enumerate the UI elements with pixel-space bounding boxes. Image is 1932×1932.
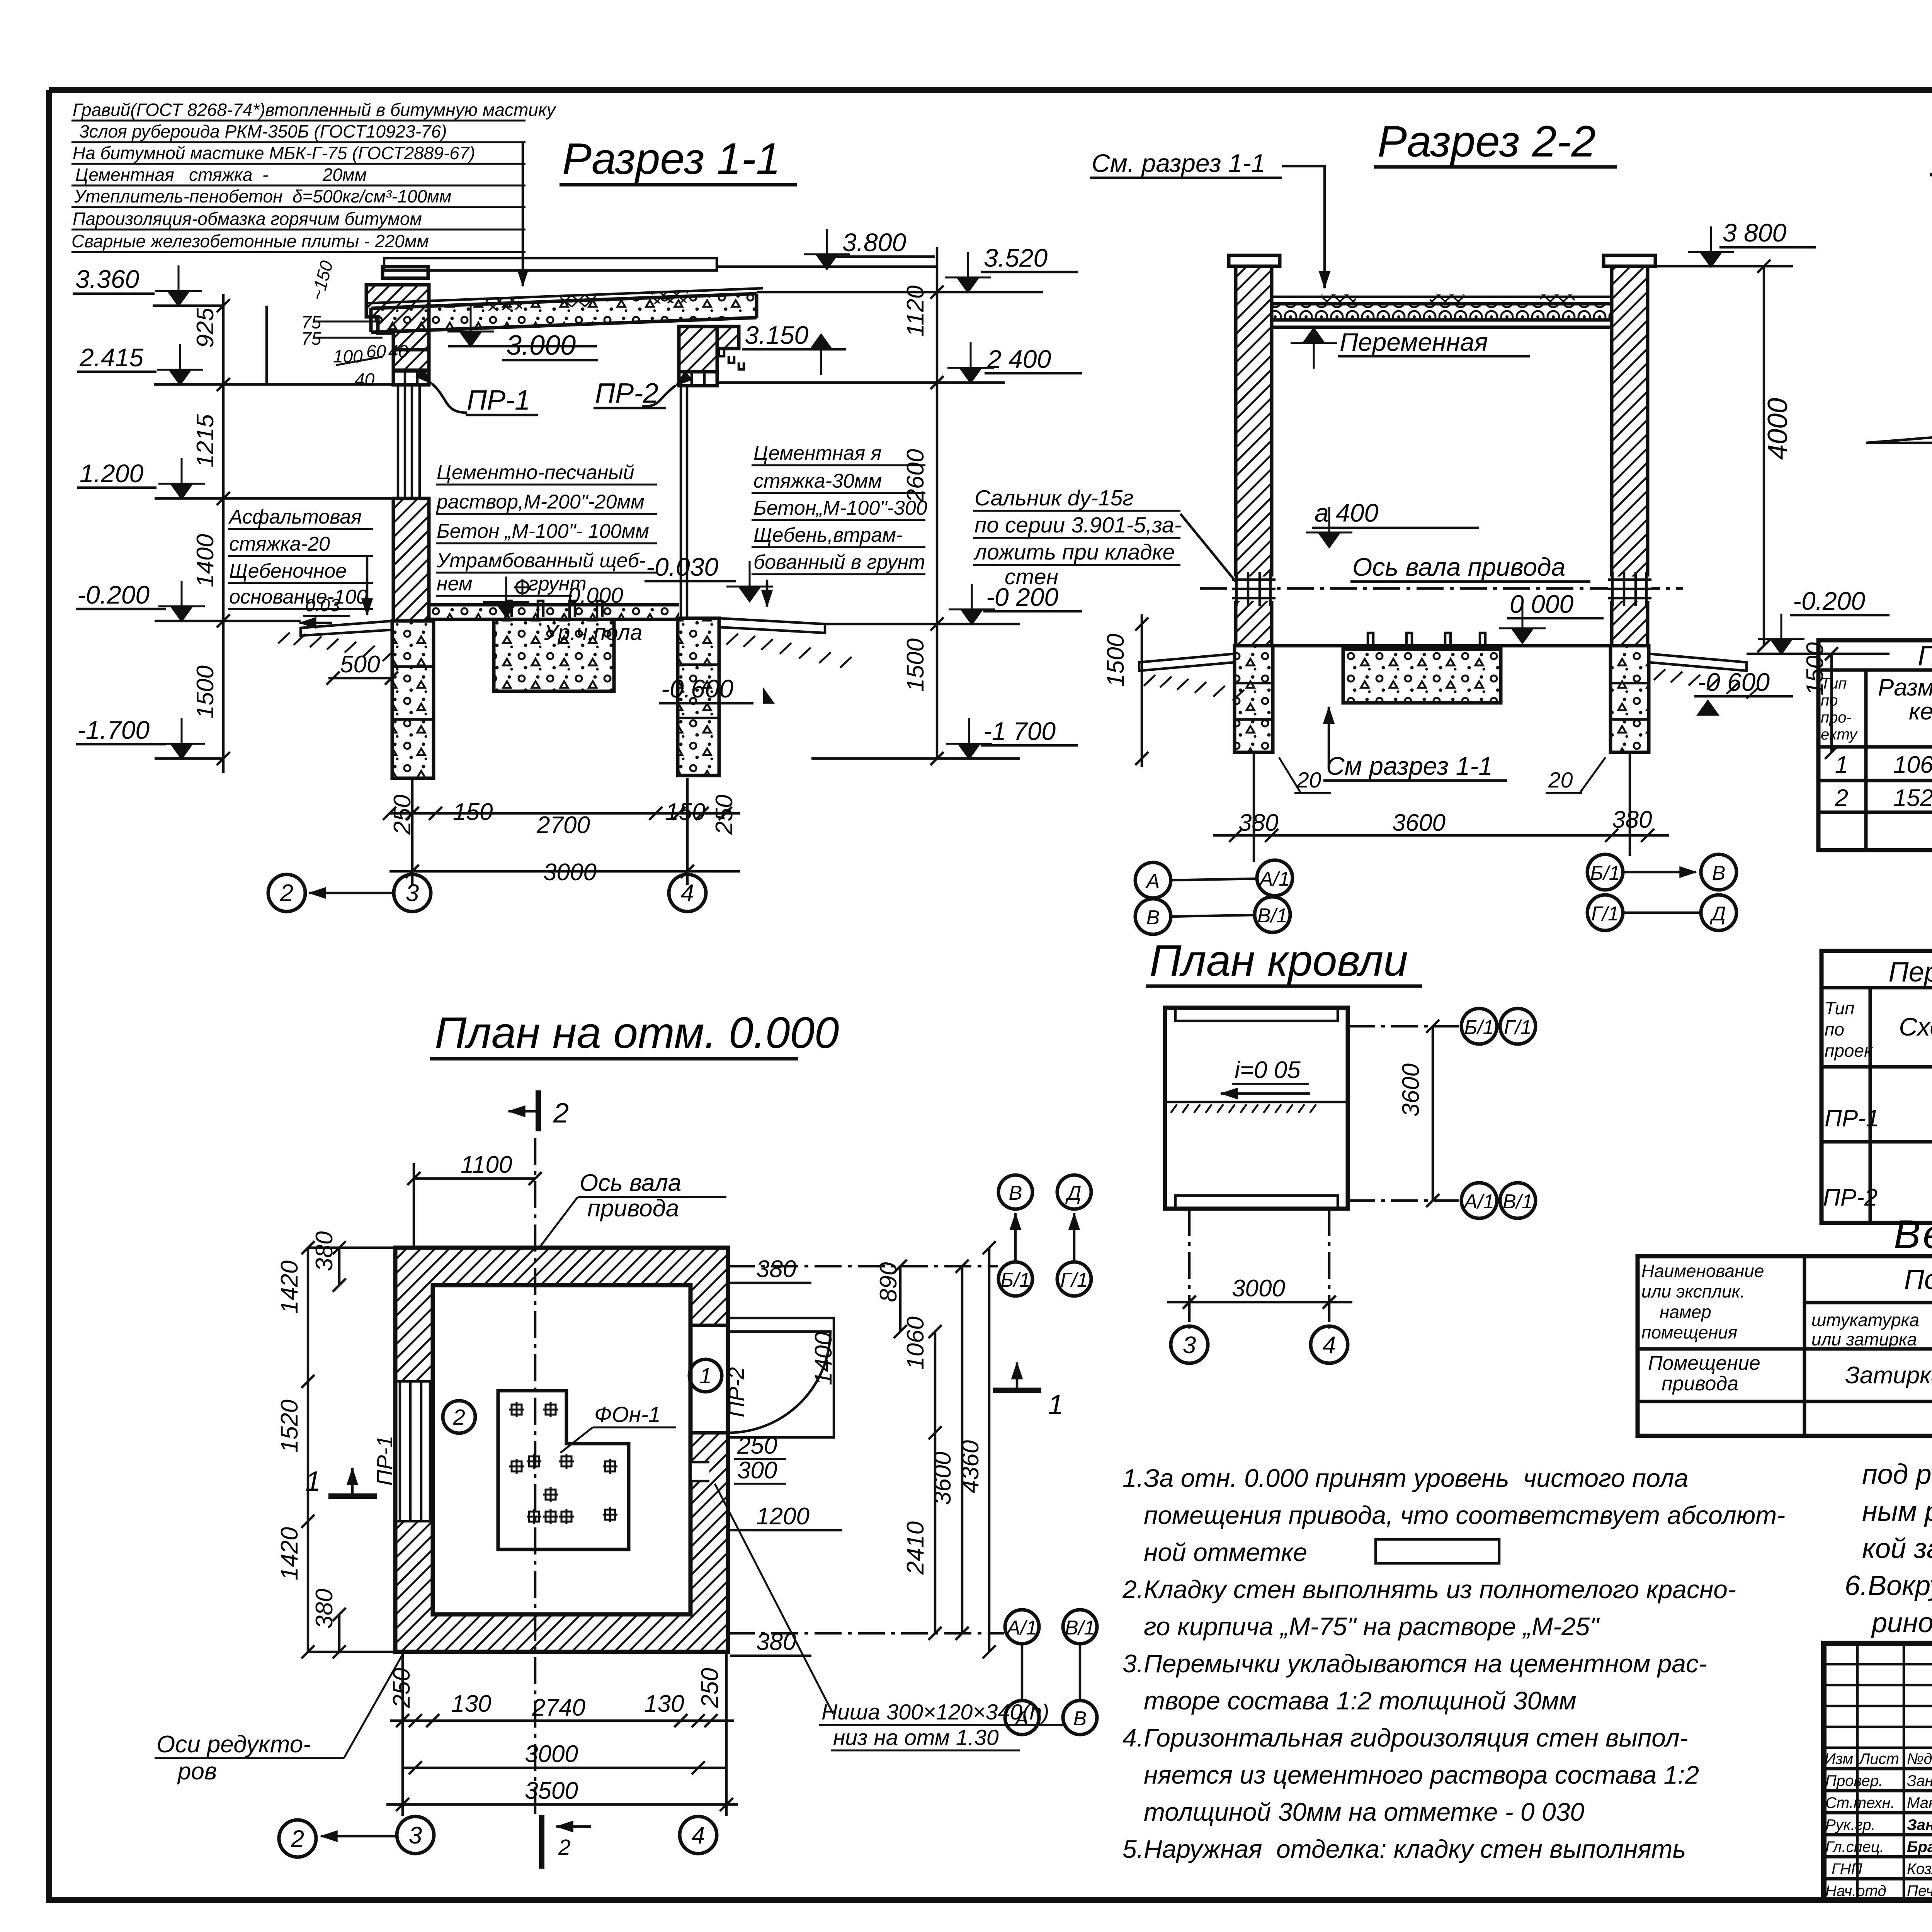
svg-text:Б/1: Б/1: [1464, 1016, 1494, 1039]
svg-text:3.Перемычки укладываются на це: 3.Перемычки укладываются на цементном ра…: [1122, 1649, 1707, 1678]
svg-text:-0.200: -0.200: [77, 580, 150, 609]
interior level 3.000: [447, 306, 598, 361]
svg-text:В: В: [1146, 906, 1160, 929]
porch outline: [728, 1318, 834, 1437]
svg-text:ПР-1: ПР-1: [467, 385, 530, 416]
svg-text:380: 380: [756, 1256, 796, 1282]
svg-text:250: 250: [737, 1432, 777, 1459]
svg-text:Оси редукто-: Оси редукто-: [156, 1731, 311, 1758]
lintel PR-1: [393, 370, 429, 385]
svg-text:Козловская: Козловская: [1907, 1861, 1932, 1878]
svg-text:3 800: 3 800: [1723, 218, 1786, 247]
svg-text:6.Вокруг здания устраивается а: 6.Вокруг здания устраивается асфальтовая…: [1845, 1570, 1932, 1601]
openings white: [393, 1381, 435, 1521]
svg-text:2700: 2700: [536, 812, 590, 838]
svg-text:1120: 1120: [902, 286, 929, 337]
svg-text:Проемы: Проемы: [1918, 641, 1932, 672]
svg-text:ПР-2: ПР-2: [1823, 1184, 1878, 1211]
svg-text:1: 1: [1048, 1389, 1063, 1420]
bottom axes: [1188, 1209, 1191, 1329]
svg-text:Переменная: Переменная: [1340, 328, 1488, 356]
svg-text:См. разрез 1-1: См. разрез 1-1: [1092, 149, 1265, 177]
svg-text:2: 2: [291, 1826, 304, 1852]
svg-text:Д: Д: [1710, 903, 1726, 925]
svg-text:штукатурка: штукатурка: [1811, 1310, 1919, 1330]
svg-text:5.Наружная отделка: кладку ст: 5.Наружная отделка: кладку стен выполнят…: [1122, 1835, 1686, 1863]
svg-text:130: 130: [644, 1690, 684, 1717]
svg-text:В/1: В/1: [1503, 1190, 1533, 1213]
svg-text:0.03: 0.03: [305, 595, 340, 615]
svg-text:3слоя рубероида РКМ-350Б (ГОСТ: 3слоя рубероида РКМ-350Б (ГОСТ10923-76): [79, 121, 447, 141]
svg-text:1: 1: [699, 1364, 712, 1388]
svg-text:Потолок: Потолок: [1904, 1264, 1932, 1295]
Peremennaya label: [1291, 327, 1337, 369]
svg-text:Г/1: Г/1: [1504, 1016, 1532, 1039]
svg-text:ров: ров: [177, 1758, 217, 1785]
svg-text:-0.600: -0.600: [661, 674, 733, 703]
svg-text:ным раствором. Окна и двери ок: ным раствором. Окна и двери окрасить мас…: [1862, 1496, 1932, 1527]
svg-text:А/1: А/1: [1463, 1190, 1494, 1213]
svg-text:4: 4: [1323, 1332, 1336, 1359]
svg-text:помещения привода, что соответ: помещения привода, что соответствует абс…: [1144, 1501, 1785, 1529]
leader from spec to cornice: [522, 143, 524, 286]
svg-text:2600: 2600: [902, 449, 929, 503]
left wall upper masonry: [393, 350, 429, 371]
svg-text:Рук.гр.: Рук.гр.: [1825, 1816, 1876, 1833]
svg-text:основание-100: основание-100: [229, 586, 367, 608]
svg-text:Цементная я: Цементная я: [753, 442, 881, 464]
svg-text:130: 130: [451, 1690, 491, 1717]
svg-text:i=0 05: i=0 05: [1235, 1057, 1301, 1083]
svg-text:См разрез 1-1: См разрез 1-1: [1326, 752, 1493, 780]
section mark 2 bottom: [539, 1815, 544, 1869]
svg-text:3.150: 3.150: [745, 321, 808, 349]
svg-text:Цементная стяжка -: Цементная стяжка - 20мм: [75, 165, 367, 185]
bottom dim chain 2-2: [1213, 834, 1669, 837]
svg-text:Утрамбованный щеб-: Утрамбованный щеб-: [436, 549, 646, 572]
svg-text:20: 20: [1296, 768, 1321, 793]
right levels of section 1-1: [717, 228, 1148, 767]
1500 right dim: [1830, 654, 1833, 752]
svg-text:3600: 3600: [1392, 810, 1446, 836]
svg-text:Щебень,втрам-: Щебень,втрам-: [753, 524, 903, 546]
floor: [1272, 644, 1612, 648]
svg-text:1520×1215: 1520×1215: [1893, 785, 1932, 811]
svg-text:Б/1: Б/1: [1000, 1269, 1030, 1291]
central equipment foundation below floor: [494, 601, 614, 691]
svg-text:Помещение: Помещение: [1648, 1352, 1760, 1374]
svg-text:3000: 3000: [1232, 1275, 1285, 1302]
svg-text:2: 2: [452, 1405, 465, 1430]
svg-text:толщиной 30мм на отметке - 0 0: толщиной 30мм на отметке - 0 030: [1144, 1798, 1584, 1826]
svg-text:Мандрыка: Мандрыка: [1907, 1794, 1932, 1811]
svg-text:бованный в грунт: бованный в грунт: [753, 551, 925, 573]
svg-text:2.Кладку стен выполнять из пол: 2.Кладку стен выполнять из полнотелого к…: [1122, 1575, 1736, 1604]
svg-text:План на отм. 0.000: План на отм. 0.000: [435, 1009, 839, 1058]
axes to circles: [1348, 1025, 1459, 1028]
ground line: [1866, 436, 1932, 443]
svg-text:1520: 1520: [276, 1400, 303, 1453]
svg-text:№докумен.: №докумен.: [1907, 1750, 1932, 1767]
svg-text:В: В: [1073, 1708, 1087, 1730]
svg-text:Провер.: Провер.: [1825, 1772, 1883, 1789]
svg-text:1420: 1420: [276, 1527, 303, 1580]
crosshatch patches on roof: [486, 299, 522, 311]
svg-text:500: 500: [340, 651, 380, 678]
parapet caps: [1229, 255, 1655, 266]
svg-text:Ведомость отделки помещений: Ведомость отделки помещений: [1894, 1212, 1932, 1257]
svg-text:Тип: Тип: [1825, 998, 1854, 1018]
svg-text:по: по: [1825, 1019, 1844, 1039]
svg-text:150: 150: [665, 799, 705, 825]
svg-text:4: 4: [692, 1822, 705, 1849]
svg-text:Разрез 2-2: Разрез 2-2: [1378, 117, 1596, 166]
opening number circles: [443, 1401, 475, 1433]
wall foundations: [1235, 646, 1273, 752]
svg-text:3.800: 3.800: [842, 228, 906, 257]
door frame in section (right wall): [681, 386, 687, 617]
bottom dim chain section 1-1: [268, 778, 740, 912]
svg-text:проек: проек: [1825, 1041, 1873, 1061]
left dim chain: [222, 294, 225, 773]
central foundation: [1343, 633, 1501, 703]
svg-text:Гл.спец.: Гл.спец.: [1825, 1838, 1884, 1855]
svg-text:раствор,М-200"-20мм: раствор,М-200"-20мм: [436, 491, 645, 513]
roof slab sloped: [365, 288, 763, 332]
svg-text:по: по: [1821, 692, 1838, 709]
svg-text:-1 700: -1 700: [983, 717, 1056, 745]
svg-text:3500: 3500: [525, 1777, 578, 1804]
svg-text:2 400: 2 400: [987, 345, 1051, 373]
svg-text:1420: 1420: [276, 1260, 303, 1314]
FOn-1 equipment foundation: [498, 1391, 629, 1549]
left levels column: [73, 265, 393, 773]
svg-text:ФОн-1: ФОн-1: [594, 1402, 661, 1427]
svg-text:380: 380: [311, 1231, 338, 1271]
svg-text:стяжка-30мм: стяжка-30мм: [753, 470, 882, 492]
svg-text:В: В: [1009, 1182, 1022, 1204]
walls: [1236, 266, 1272, 646]
svg-text:1100: 1100: [461, 1151, 512, 1178]
svg-text:1.200: 1.200: [80, 459, 143, 488]
svg-text:екту: екту: [1821, 726, 1858, 743]
svg-text:3000: 3000: [525, 1741, 578, 1767]
gland sleeves through walls: [1232, 572, 1276, 606]
svg-text:ПР-2: ПР-2: [595, 378, 658, 409]
svg-text:925: 925: [192, 308, 219, 348]
svg-text:380: 380: [1238, 810, 1278, 836]
svg-text:380: 380: [1612, 806, 1652, 833]
svg-text:Разрез 1-1: Разрез 1-1: [562, 134, 781, 184]
PR-1 PR-2 labels: [432, 378, 675, 416]
svg-text:2: 2: [553, 1098, 569, 1129]
svg-text:3000: 3000: [543, 859, 597, 886]
svg-text:А: А: [1145, 870, 1160, 893]
svg-text:ной отметке: ной отметке: [1144, 1538, 1307, 1566]
svg-text:Перемычки: Перемычки: [1888, 957, 1932, 988]
svg-text:1060× 2400: 1060× 2400: [1893, 752, 1932, 778]
svg-text:Сальник dy-15г: Сальник dy-15г: [975, 486, 1134, 510]
axis vertical (drive shaft): [534, 1138, 537, 1816]
svg-text:по серии 3.901-5,за-: по серии 3.901-5,за-: [975, 513, 1182, 537]
door leaf + swing: [728, 1332, 830, 1433]
svg-text:4.Горизонтальная гидроизоляция: 4.Горизонтальная гидроизоляция стен выпо…: [1122, 1723, 1688, 1752]
svg-text:Цементно-песчаный: Цементно-песчаный: [437, 461, 634, 484]
svg-text:помещения: помещения: [1641, 1322, 1737, 1342]
svg-text:380: 380: [311, 1589, 338, 1629]
svg-text:Тип: Тип: [1821, 675, 1847, 692]
svg-text:Ур.ч.пола: Ур.ч.пола: [544, 620, 642, 645]
niche: [690, 1462, 709, 1481]
svg-text:1500: 1500: [1102, 634, 1129, 687]
svg-text:1: 1: [1835, 752, 1848, 778]
svg-text:Гравий(ГОСТ 8268-74*)втопленны: Гравий(ГОСТ 8268-74*)втопленный в битумн…: [73, 100, 557, 120]
far parapet cap band: [384, 258, 717, 270]
window lines in left wall: [395, 1381, 433, 1521]
svg-text:ПР-1: ПР-1: [1825, 1105, 1879, 1132]
right wall masonry above lintel: [679, 327, 717, 372]
svg-text:Сварные железобетонные плиты -: Сварные железобетонные плиты - 220мм: [71, 231, 429, 251]
svg-text:привода: привода: [587, 1195, 679, 1222]
window in section (left wall): [398, 385, 420, 498]
svg-text:ГНП: ГНП: [1832, 1861, 1863, 1878]
svg-text:2: 2: [280, 880, 293, 906]
svg-text:под расшивку швов, цоколь и от: под расшивку швов, цоколь и откосы оштук…: [1862, 1459, 1932, 1490]
bottom dims: [279, 1652, 738, 1857]
svg-text:3600: 3600: [1398, 1063, 1424, 1117]
svg-text:40: 40: [388, 341, 408, 361]
svg-text:Нач.отд: Нач.отд: [1825, 1883, 1886, 1900]
svg-text:2: 2: [558, 1835, 571, 1860]
pavements + soil: [1139, 654, 1235, 671]
svg-text:низ на отм 1.30: низ на отм 1.30: [833, 1725, 999, 1750]
G-SPEC: roof layers spec text block: [71, 100, 557, 286]
right wall foundation: [678, 618, 719, 776]
svg-text:150: 150: [453, 799, 493, 825]
svg-text:риной 0,5м: риной 0,5м: [1871, 1607, 1932, 1638]
svg-text:1400: 1400: [192, 534, 219, 587]
svg-text:-0 600: -0 600: [1697, 668, 1770, 696]
svg-text:А/1: А/1: [1259, 868, 1290, 890]
svg-text:Зантберг: Зантберг: [1907, 1772, 1932, 1789]
svg-text:Наименование: Наименование: [1641, 1261, 1764, 1281]
svg-text:В/1: В/1: [1257, 905, 1287, 927]
svg-text:0 000: 0 000: [1510, 590, 1573, 618]
svg-text:3: 3: [406, 880, 419, 906]
svg-text:Бетон „М-100"- 100мм: Бетон „М-100"- 100мм: [437, 520, 649, 543]
svg-text:1200: 1200: [756, 1503, 810, 1530]
svg-text:Пароизоляция-обмазка горячим б: Пароизоляция-обмазка горячим битумом: [73, 209, 422, 229]
svg-text:А/1: А/1: [1006, 1617, 1037, 1639]
svg-text:Ниша 300×120×340(h): Ниша 300×120×340(h): [821, 1700, 1049, 1725]
section mark 2 top: [536, 1090, 541, 1131]
-0.030 level: [645, 553, 773, 603]
svg-text:1500: 1500: [902, 638, 929, 692]
svg-text:Утеплитель-пенобетон δ=500кг/: Утеплитель-пенобетон δ=500кг/см³-100мм: [74, 186, 451, 206]
interior finish note text: [436, 461, 657, 645]
svg-text:Схема сечения: Схема сечения: [1899, 1012, 1932, 1041]
svg-text:3: 3: [409, 1822, 422, 1849]
1100 top dim: [414, 1177, 535, 1180]
svg-text:Г/1: Г/1: [1591, 903, 1619, 925]
svg-text:3.520: 3.520: [984, 243, 1048, 272]
svg-text:или эксплик.: или эксплик.: [1641, 1281, 1745, 1301]
axis circle pairs: [1135, 862, 1171, 898]
svg-text:Асфальтовая: Асфальтовая: [228, 506, 362, 528]
lintel PR-2: [679, 372, 717, 386]
left grid: [1824, 1664, 1932, 1748]
svg-text:1.За отн. 0.000 принят уровень: 1.За отн. 0.000 принят уровень чистого п…: [1122, 1464, 1688, 1492]
svg-text:кой за 2 раза: кой за 2 раза: [1862, 1533, 1932, 1564]
svg-text:На битумной мастике МБК-Г-75 (: На битумной мастике МБК-Г-75 (ГОСТ2889-6…: [73, 143, 475, 163]
svg-text:стяжка-20: стяжка-20: [229, 533, 330, 555]
svg-text:Б/1: Б/1: [1590, 862, 1620, 884]
svg-text:ПР-2: ПР-2: [724, 1367, 749, 1417]
axes dash-dot to circles right: [728, 1265, 998, 1268]
svg-text:3: 3: [1183, 1332, 1196, 1359]
svg-text:ложить при кладке: ложить при кладке: [973, 540, 1175, 565]
svg-text:-0.030: -0.030: [646, 553, 718, 581]
svg-text:Ось вала: Ось вала: [580, 1170, 681, 1196]
svg-text:Г/1: Г/1: [1060, 1269, 1088, 1291]
right cornice / eave: [717, 327, 744, 369]
svg-text:250: 250: [711, 795, 738, 835]
svg-text:3600: 3600: [929, 1452, 956, 1505]
svg-text:Печенки: Печенки: [1907, 1883, 1932, 1900]
right dims: [730, 1241, 996, 1658]
svg-text:300: 300: [737, 1457, 777, 1484]
svg-text:ке b×h: ке b×h: [1909, 698, 1932, 725]
svg-text:250: 250: [697, 1668, 723, 1708]
svg-text:3.000: 3.000: [506, 330, 576, 361]
svg-text:-1.700: -1.700: [77, 716, 150, 744]
-0.600 level: [659, 674, 775, 704]
left cornice block: [366, 267, 429, 350]
svg-text:В/1: В/1: [1065, 1617, 1095, 1639]
cornice small dims: [301, 259, 408, 389]
svg-text:1215: 1215: [192, 414, 219, 468]
svg-text:-0.200: -0.200: [1793, 587, 1865, 615]
svg-text:1400: 1400: [810, 1332, 837, 1385]
left wall below window: [393, 498, 429, 621]
svg-text:План кровли: План кровли: [1150, 936, 1408, 985]
left dims: [276, 1231, 395, 1658]
svg-text:Зантберг: Зантберг: [1907, 1816, 1932, 1833]
axis circles 2 3 4: [268, 874, 305, 912]
svg-text:2740: 2740: [532, 1694, 585, 1721]
walls with hatch: [395, 1248, 728, 1652]
svg-text:В: В: [1712, 862, 1726, 884]
svg-text:Ст.техн.: Ст.техн.: [1825, 1794, 1895, 1811]
svg-text:3.360: 3.360: [75, 265, 139, 293]
svg-text:Браславский: Браславский: [1907, 1838, 1932, 1855]
4000 vertical dim: [1763, 266, 1765, 646]
svg-text:го кирпича „М-75" на растворе: го кирпича „М-75" на растворе „М-25": [1144, 1612, 1600, 1641]
svg-text:4000: 4000: [1762, 398, 1793, 460]
section marks 1-1: [305, 1362, 1063, 1497]
svg-text:намер: намер: [1660, 1302, 1711, 1322]
svg-text:а 400: а 400: [1315, 498, 1378, 527]
svg-text:40: 40: [355, 369, 375, 389]
svg-text:няется из цементного раствора: няется из цементного раствора состава 1:…: [1144, 1760, 1699, 1789]
interior floor slab: [429, 605, 679, 619]
left pavement + soil: [278, 621, 394, 661]
svg-text:4: 4: [681, 880, 694, 906]
roof slab: top line, insulation circles, bottom: [1272, 296, 1612, 298]
svg-text:Д: Д: [1065, 1182, 1082, 1204]
svg-text:Размер в клад-: Размер в клад-: [1878, 674, 1932, 701]
svg-text:ПР-1: ПР-1: [372, 1435, 397, 1486]
svg-text:2.415: 2.415: [79, 343, 143, 372]
svg-text:Затирка: Затирка: [1845, 1362, 1932, 1389]
left wall foundation: [392, 621, 434, 778]
right wall finish note: [752, 442, 927, 607]
svg-text:привода: привода: [1662, 1372, 1738, 1395]
right pavement + soil: [719, 618, 852, 668]
svg-text:0.000: 0.000: [568, 583, 623, 608]
svg-text:Бетон„М-100"-300: Бетон„М-100"-300: [753, 497, 927, 519]
svg-text:стен: стен: [1005, 565, 1058, 589]
svg-text:творе состава 1:2 толщиной 30м: творе состава 1:2 толщиной 30мм: [1144, 1686, 1577, 1715]
svg-text:20: 20: [1548, 768, 1573, 793]
door opening in right wall: [690, 1325, 728, 1433]
svg-text:про-: про-: [1821, 709, 1852, 726]
svg-text:нем грунт: нем грунт: [437, 573, 587, 595]
svg-text:1500: 1500: [192, 665, 219, 719]
svg-text:2: 2: [1835, 785, 1848, 811]
svg-text:Изм: Изм: [1825, 1750, 1853, 1767]
svg-text:Лист: Лист: [1858, 1750, 1899, 1767]
svg-text:Ось вала привода: Ось вала привода: [1352, 553, 1565, 581]
svg-text:или затирка: или затирка: [1811, 1329, 1917, 1349]
svg-text:2410: 2410: [902, 1521, 929, 1575]
svg-text:Щебеночное: Щебеночное: [229, 560, 347, 582]
asphalt screed note: [228, 506, 398, 685]
